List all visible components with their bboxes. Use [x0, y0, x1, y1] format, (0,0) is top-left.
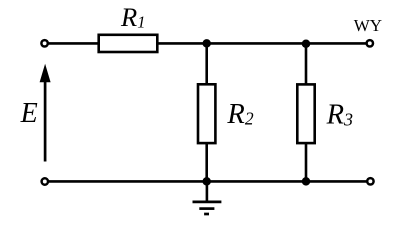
node junction dot bottom-left — [202, 177, 211, 186]
resistor R1 — [99, 35, 158, 52]
svg-text:WY: WY — [354, 16, 382, 35]
wire R3 branch vertical — [305, 43, 308, 181]
resistor R3 — [297, 84, 314, 143]
ground — [193, 181, 222, 214]
wire R2 branch vertical — [205, 43, 208, 181]
node junction dot top-left — [202, 39, 211, 48]
terminal output top WY — [367, 40, 373, 46]
svg-text:R3: R3 — [326, 99, 353, 130]
terminal input bottom — [42, 178, 48, 184]
node junction dot bottom-right — [302, 177, 311, 186]
source arrow E — [40, 64, 51, 162]
terminal output bottom — [367, 178, 373, 184]
wire bottom rail — [48, 180, 367, 183]
terminal input top — [41, 40, 47, 46]
resistor R2 — [198, 84, 215, 143]
node junction dot top-right — [302, 39, 311, 48]
svg-text:R2: R2 — [226, 99, 253, 130]
svg-text:R1: R1 — [120, 2, 145, 32]
svg-text:E: E — [20, 98, 38, 129]
wire top rail — [48, 42, 367, 45]
